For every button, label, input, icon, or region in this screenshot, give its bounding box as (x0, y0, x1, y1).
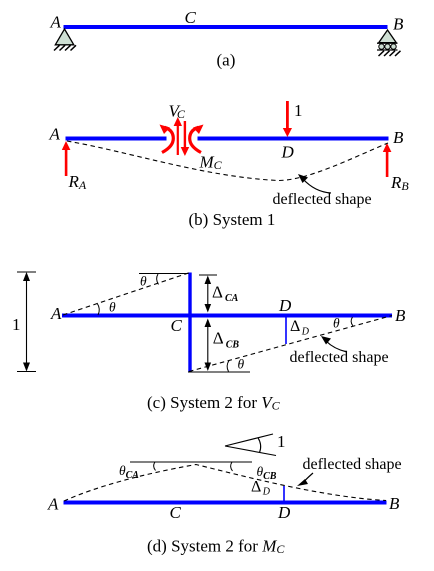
svg-text:θ: θ (109, 300, 116, 315)
svg-text:C: C (170, 503, 182, 522)
dashed deflected line A to C-top (63, 273, 189, 315)
shear arrow up at C (174, 117, 182, 155)
svg-text:θ: θ (140, 274, 147, 289)
svg-text:C: C (185, 8, 197, 27)
svg-text:RA: RA (68, 172, 87, 192)
dimension arrow Delta_CB (205, 319, 212, 372)
pin support at A (54, 29, 76, 51)
reaction arrow R_B (383, 143, 392, 177)
shear arrow down at C (181, 121, 190, 156)
angle tick at A (97, 303, 99, 315)
svg-text:deflected shape: deflected shape (290, 349, 389, 366)
svg-text:θ: θ (238, 357, 245, 372)
svg-text:C: C (171, 316, 183, 335)
unit load arrow at D (283, 101, 292, 137)
svg-text:VC: VC (169, 102, 186, 122)
horizontal reference line at C kink (130, 461, 252, 463)
moment curved arrow right of C (190, 125, 204, 153)
moment curved arrow left of C (160, 125, 174, 153)
angle tick at B (351, 317, 353, 326)
svg-text:1: 1 (12, 315, 21, 334)
beam AB (c) (62, 314, 392, 318)
deflected shape dashed curve (b) (67, 141, 388, 181)
angle tick at C-bottom (227, 361, 229, 372)
svg-text:RB: RB (390, 173, 409, 193)
dimension line 1 at left (17, 272, 36, 372)
horizontal reference line at C-top (139, 273, 189, 275)
svg-text:B: B (395, 306, 406, 325)
svg-text:B: B (393, 15, 404, 34)
svg-text:θCA: θCA (119, 463, 139, 481)
roller support at B (377, 30, 401, 56)
reaction arrow R_A (62, 141, 71, 176)
horizontal reference line at C-bottom (188, 371, 250, 373)
svg-text:deflected shape: deflected shape (273, 191, 372, 208)
svg-text:deflected shape: deflected shape (303, 456, 402, 473)
pointer arrow to deflected shape (b) (298, 174, 331, 193)
svg-text:θ: θ (333, 316, 340, 331)
svg-text:A: A (50, 304, 62, 323)
dashed deflected shape (d) (64, 465, 386, 502)
svg-text:D: D (281, 143, 295, 162)
dashed deflected line C-bottom to B (189, 316, 392, 372)
beam AB (d) (64, 501, 387, 505)
svg-text:(b) System 1: (b) System 1 (189, 210, 276, 229)
svg-text:A: A (49, 125, 61, 144)
svg-text:1: 1 (277, 432, 286, 451)
svg-text:ΔCA: ΔCA (212, 283, 239, 305)
svg-text:(d) System 2 for MC: (d) System 2 for MC (147, 537, 285, 557)
pointer arrow to deflected shape (d) (297, 473, 313, 486)
svg-text:(c) System 2 for VC: (c) System 2 for VC (147, 393, 281, 413)
svg-text:(a): (a) (217, 51, 236, 70)
svg-text:D: D (278, 296, 292, 315)
vertical jump line at C (188, 273, 191, 372)
svg-text:ΔD: ΔD (290, 318, 310, 338)
pointer arrow to deflected shape (c) (321, 336, 347, 352)
svg-text:D: D (277, 503, 291, 522)
ordinate tick at D (c) (285, 318, 287, 345)
unit rotation wedge symbol (225, 434, 276, 456)
angle tick theta_CA (154, 462, 156, 471)
angle tick at C-top (157, 274, 159, 285)
svg-text:B: B (393, 128, 404, 147)
angle tick theta_CB (231, 462, 233, 471)
svg-text:1: 1 (294, 101, 303, 120)
dimension arrow Delta_CA (199, 275, 217, 313)
svg-text:ΔCB: ΔCB (213, 329, 240, 351)
svg-text:A: A (50, 13, 62, 32)
svg-text:A: A (47, 495, 59, 514)
svg-text:MC: MC (199, 153, 223, 173)
ordinate tick at D (d) (283, 486, 285, 501)
beam AB (a) (64, 25, 388, 29)
beam right segment (b) (198, 137, 389, 141)
svg-text:B: B (389, 494, 400, 513)
beam left segment (b) (66, 137, 167, 141)
